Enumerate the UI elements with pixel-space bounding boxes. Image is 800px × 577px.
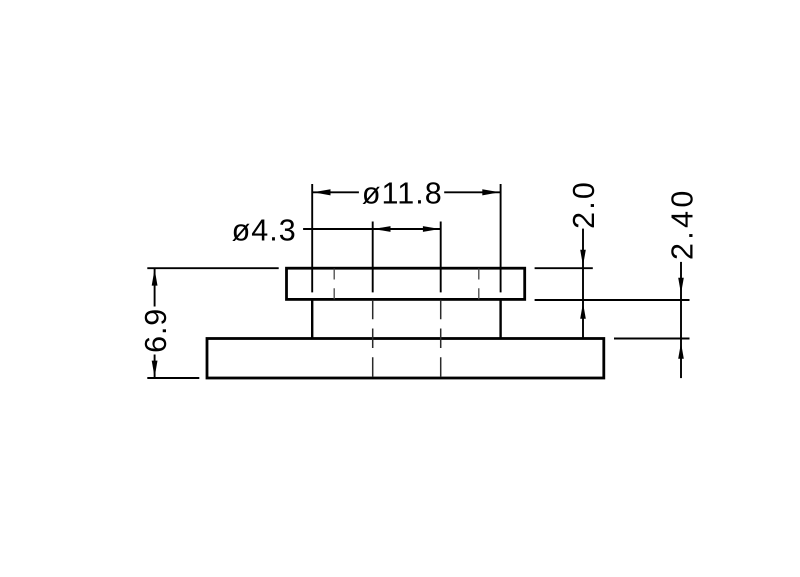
svg-text:2.0: 2.0 xyxy=(567,180,601,229)
svg-text:ø4.3: ø4.3 xyxy=(232,214,297,248)
svg-text:2.40: 2.40 xyxy=(666,187,700,260)
svg-text:6.9: 6.9 xyxy=(139,308,173,353)
svg-text:ø11.8: ø11.8 xyxy=(362,176,443,210)
